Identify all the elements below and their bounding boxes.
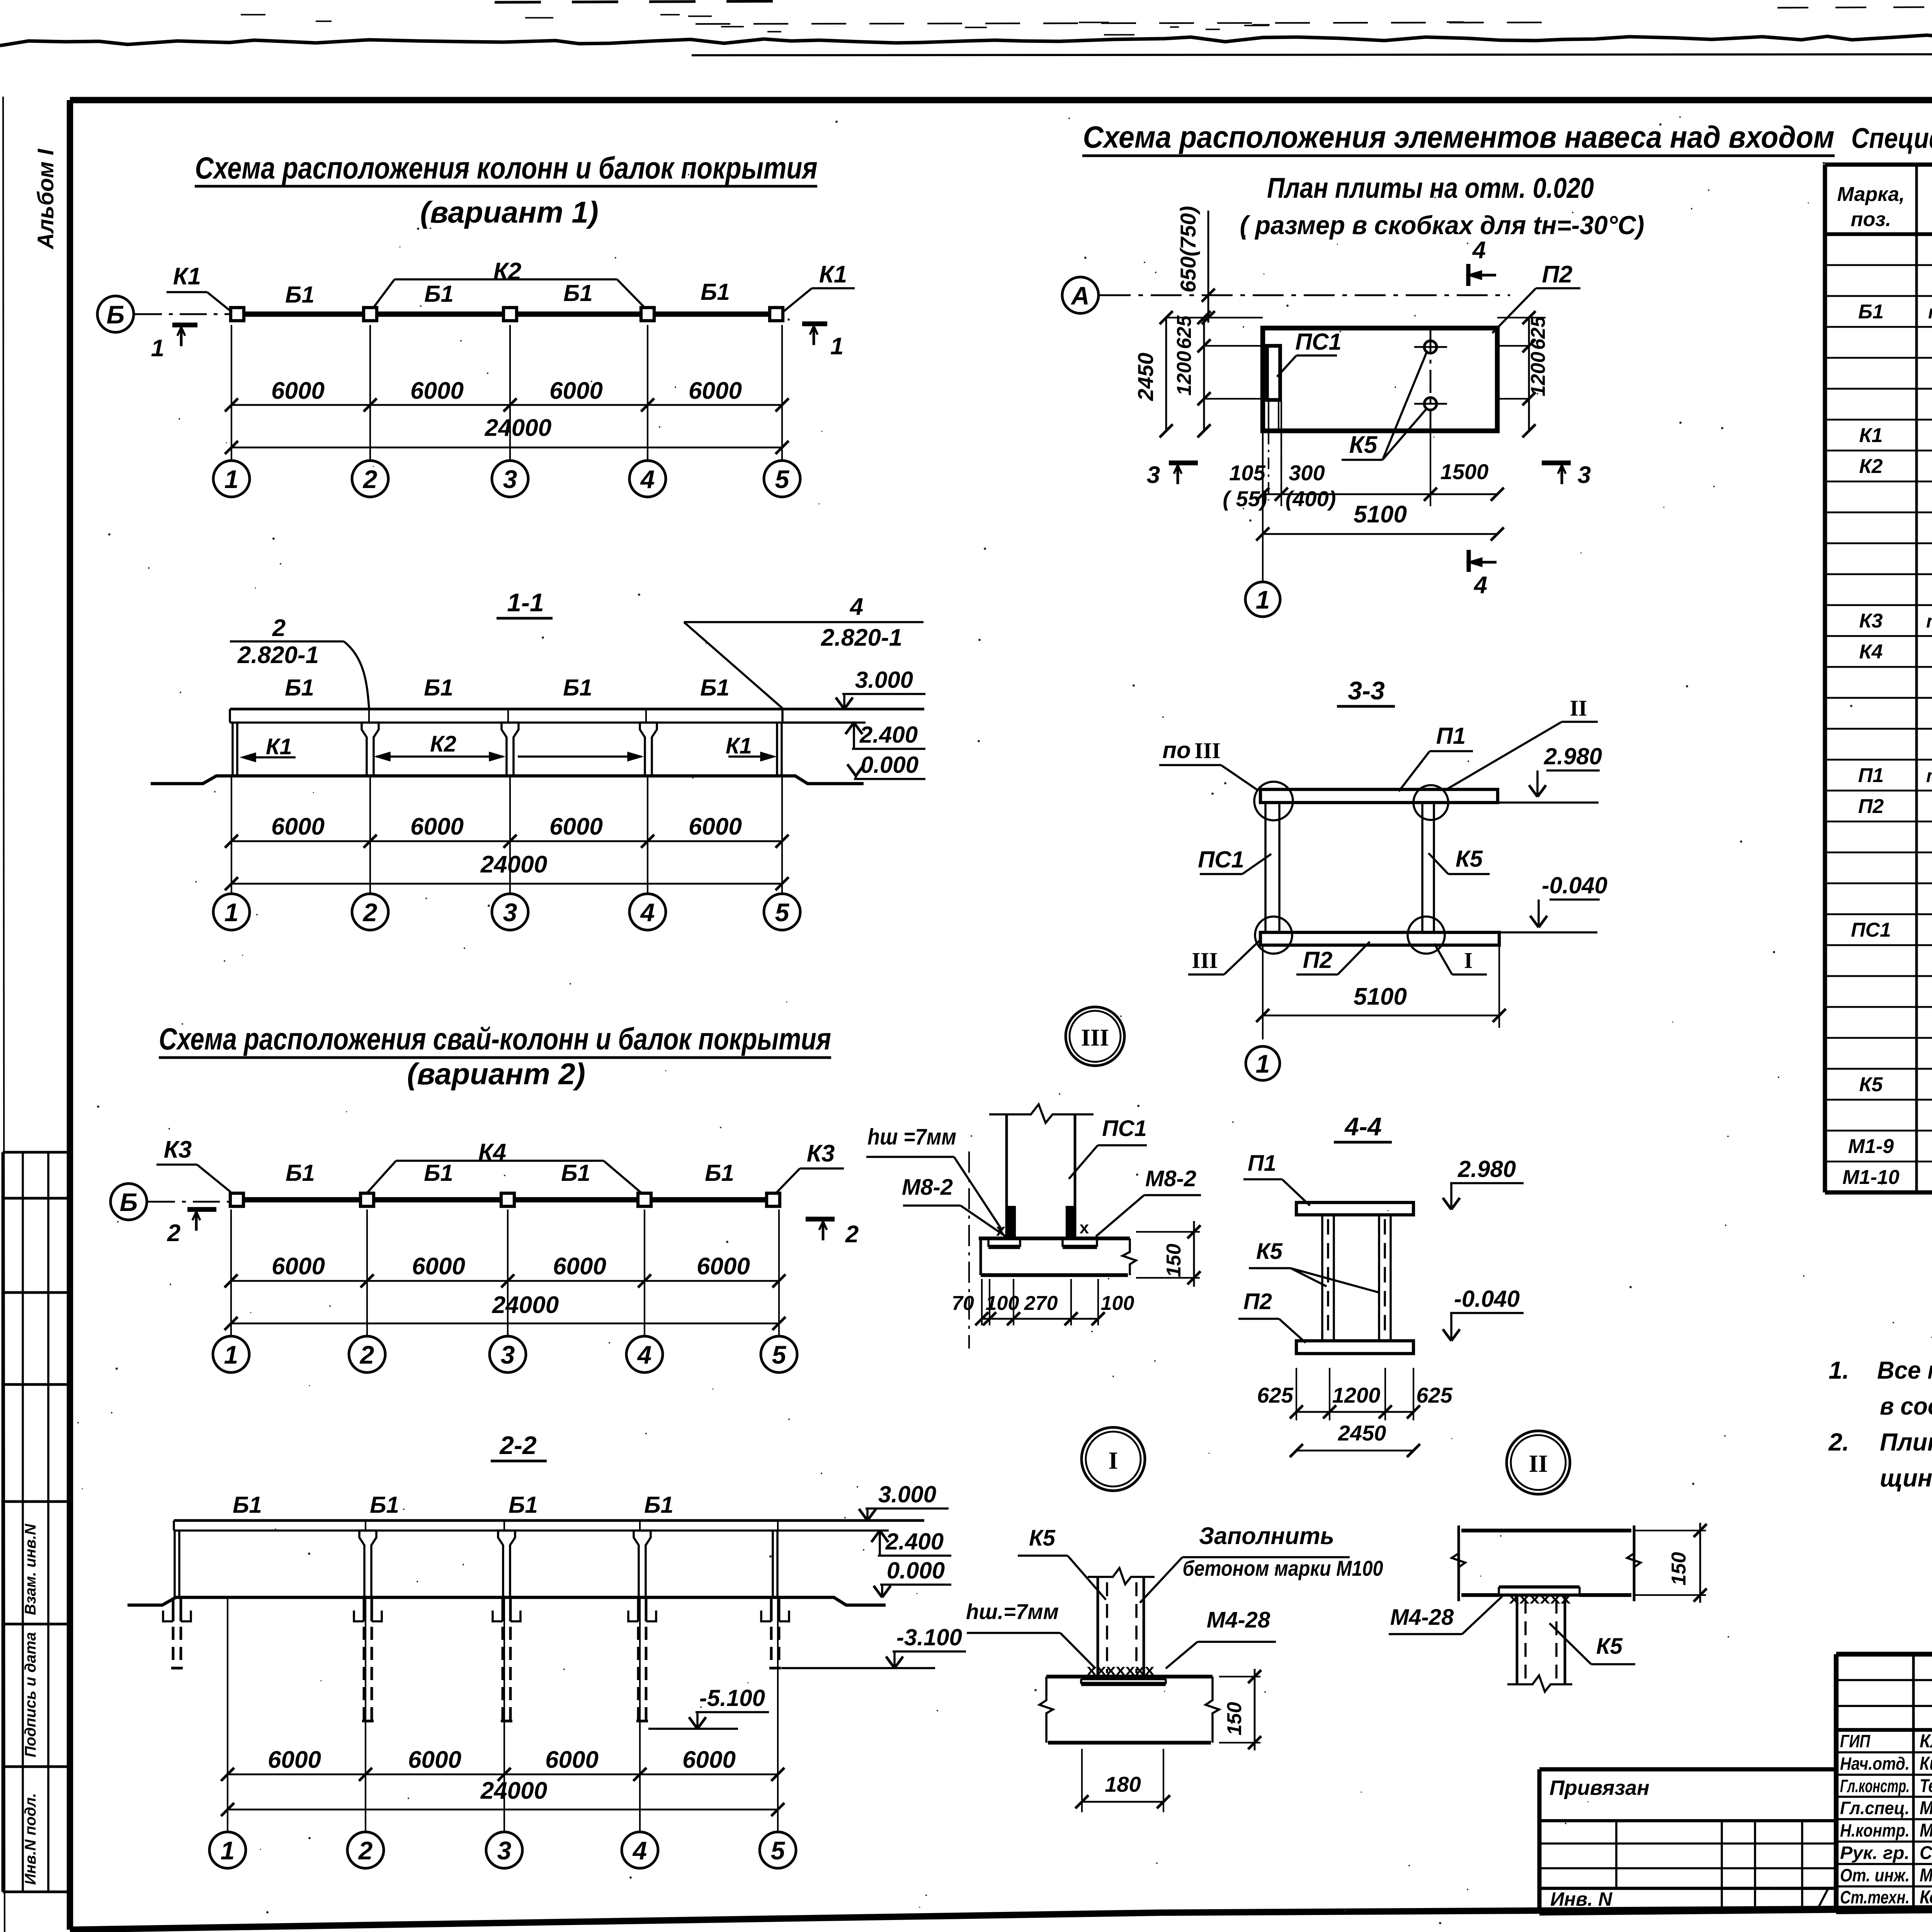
svg-text:5: 5 bbox=[775, 898, 790, 927]
svg-text:Марков: Марков bbox=[1920, 1820, 1932, 1841]
svg-text:К2: К2 bbox=[430, 731, 456, 757]
svg-text:6000: 6000 bbox=[549, 813, 603, 840]
svg-text:2450: 2450 bbox=[1133, 353, 1158, 401]
svg-text:Клейн: Клейн bbox=[1920, 1731, 1932, 1752]
svg-text:1: 1 bbox=[830, 333, 844, 360]
svg-text:Б1: Б1 bbox=[563, 675, 592, 701]
svg-text:Б1: Б1 bbox=[424, 281, 454, 307]
svg-text:поз.: поз. bbox=[1851, 208, 1891, 231]
svg-text:6000: 6000 bbox=[697, 1253, 750, 1280]
svg-text:К1: К1 bbox=[726, 733, 752, 759]
svg-text:в соответствии с указаниями: в соответствии с указаниями на листе АС-… bbox=[1880, 1392, 1932, 1420]
svg-text:Схема расположения колонн и ба: Схема расположения колонн и балок покрыт… bbox=[195, 151, 818, 185]
svg-text:6000: 6000 bbox=[410, 378, 464, 404]
svg-text:2: 2 bbox=[362, 898, 378, 927]
svg-text:6000: 6000 bbox=[272, 1253, 325, 1280]
svg-text:625: 625 bbox=[1416, 1383, 1452, 1407]
svg-text:1: 1 bbox=[1256, 1049, 1270, 1078]
svg-text:II: II bbox=[1570, 696, 1587, 721]
svg-text:П2: П2 bbox=[1303, 947, 1333, 973]
svg-text:6000: 6000 bbox=[271, 378, 325, 404]
svg-text:270: 270 bbox=[1024, 1292, 1058, 1315]
svg-text:Б1: Б1 bbox=[424, 675, 453, 701]
svg-text:4: 4 bbox=[637, 1340, 652, 1369]
svg-text:Рук. гр.: Рук. гр. bbox=[1840, 1843, 1910, 1863]
svg-text:3.000: 3.000 bbox=[855, 667, 913, 693]
svg-text:Подпись и дата: Подпись и дата bbox=[22, 1632, 39, 1757]
svg-text:План плиты на отм. 0.020: План плиты на отм. 0.020 bbox=[1267, 172, 1594, 204]
svg-text:т.п.: т.п. bbox=[1926, 611, 1932, 632]
svg-text:1: 1 bbox=[224, 465, 239, 493]
svg-text:4: 4 bbox=[640, 465, 655, 493]
svg-text:4: 4 bbox=[1473, 572, 1487, 599]
svg-text:I: I bbox=[1109, 1447, 1118, 1474]
svg-text:1: 1 bbox=[1256, 585, 1270, 614]
svg-text:2.400: 2.400 bbox=[885, 1529, 944, 1554]
svg-text:6000: 6000 bbox=[412, 1253, 465, 1280]
svg-text:1-1: 1-1 bbox=[507, 588, 544, 617]
svg-text:П2: П2 bbox=[1243, 1289, 1272, 1314]
svg-text:Ким: Ким bbox=[1920, 1753, 1932, 1774]
svg-text:Марков: Марков bbox=[1920, 1798, 1932, 1818]
svg-text:2-2: 2-2 bbox=[499, 1431, 537, 1459]
svg-text:3: 3 bbox=[503, 465, 517, 493]
svg-text:3-3: 3-3 bbox=[1348, 676, 1384, 705]
svg-text:300: 300 bbox=[1289, 461, 1325, 485]
svg-text:Схема расположения свай-колонн: Схема расположения свай-колонн и балок п… bbox=[159, 1022, 831, 1056]
svg-text:К5: К5 bbox=[1596, 1634, 1623, 1659]
svg-text:( размер в скобках для tн=-30°: ( размер в скобках для tн=-30°C) bbox=[1240, 211, 1645, 240]
svg-text:2.400: 2.400 bbox=[859, 722, 918, 748]
svg-text:Б1: Б1 bbox=[561, 1160, 590, 1186]
svg-text:x: x bbox=[1080, 1218, 1089, 1237]
svg-text:625: 625 bbox=[1257, 1383, 1293, 1407]
svg-text:Б1: Б1 bbox=[286, 1160, 315, 1186]
svg-text:Б: Б bbox=[107, 300, 125, 329]
svg-text:2.: 2. bbox=[1828, 1428, 1849, 1456]
svg-text:24000: 24000 bbox=[485, 415, 551, 441]
svg-text:по: по bbox=[1162, 737, 1190, 763]
svg-text:625: 625 bbox=[1173, 315, 1196, 349]
svg-text:Привязан: Привязан bbox=[1549, 1776, 1650, 1799]
svg-text:Взам. инв.N: Взам. инв.N bbox=[22, 1524, 39, 1615]
svg-text:2.820-1: 2.820-1 bbox=[821, 624, 902, 651]
svg-text:3: 3 bbox=[503, 898, 517, 927]
svg-text:2: 2 bbox=[845, 1221, 859, 1248]
svg-text:3: 3 bbox=[501, 1340, 515, 1369]
svg-text:А: А bbox=[1070, 281, 1090, 310]
svg-text:100: 100 bbox=[986, 1292, 1019, 1315]
svg-text:105: 105 bbox=[1229, 461, 1265, 485]
svg-text:Б1: Б1 bbox=[563, 280, 593, 306]
svg-text:1200: 1200 bbox=[1527, 352, 1549, 396]
svg-text:К1: К1 bbox=[819, 261, 847, 288]
svg-text:5: 5 bbox=[771, 1836, 786, 1865]
svg-text:Б1: Б1 bbox=[509, 1492, 538, 1518]
svg-text:Н.контр.: Н.контр. bbox=[1840, 1820, 1910, 1840]
svg-text:5100: 5100 bbox=[1354, 501, 1407, 528]
svg-text:Б1: Б1 bbox=[705, 1160, 734, 1186]
svg-text:1500: 1500 bbox=[1440, 459, 1489, 484]
svg-text:2: 2 bbox=[359, 1340, 374, 1369]
svg-text:70: 70 bbox=[952, 1292, 974, 1315]
svg-text:III: III bbox=[1194, 738, 1221, 763]
svg-text:Нач.отд.: Нач.отд. bbox=[1840, 1753, 1910, 1774]
svg-text:1200: 1200 bbox=[1332, 1383, 1381, 1407]
svg-text:М1-10: М1-10 bbox=[1842, 1166, 1899, 1189]
svg-text:5: 5 bbox=[775, 465, 790, 493]
svg-text:Б1: Б1 bbox=[285, 675, 314, 701]
svg-text:К1: К1 bbox=[173, 263, 201, 290]
svg-text:-5.100: -5.100 bbox=[699, 1685, 765, 1711]
svg-text:К3: К3 bbox=[164, 1136, 192, 1163]
svg-text:П2: П2 bbox=[1542, 261, 1572, 288]
svg-text:( 55): ( 55) bbox=[1223, 486, 1267, 511]
svg-text:К5: К5 bbox=[1859, 1073, 1883, 1096]
svg-text:М4-28: М4-28 bbox=[1207, 1607, 1270, 1633]
svg-text:ПС1: ПС1 bbox=[1851, 919, 1891, 941]
svg-text:6000: 6000 bbox=[268, 1747, 321, 1773]
svg-text:1200: 1200 bbox=[1173, 351, 1196, 396]
svg-text:Спецификация элементов к схема: Спецификация элементов к схемам располож… bbox=[1851, 122, 1932, 154]
svg-text:т.п.: т.п. bbox=[1928, 302, 1932, 323]
svg-text:II: II bbox=[1529, 1450, 1548, 1477]
svg-text:III: III bbox=[1192, 948, 1218, 973]
svg-text:3: 3 bbox=[497, 1836, 512, 1865]
svg-text:2450: 2450 bbox=[1338, 1421, 1386, 1445]
svg-text:6000: 6000 bbox=[682, 1747, 736, 1773]
svg-text:1: 1 bbox=[151, 335, 164, 362]
svg-text:150: 150 bbox=[1668, 1552, 1690, 1586]
svg-text:4: 4 bbox=[640, 898, 655, 927]
svg-text:Ст.техн.: Ст.техн. bbox=[1840, 1887, 1910, 1907]
svg-text:6000: 6000 bbox=[689, 378, 742, 404]
svg-text:hш =7мм: hш =7мм bbox=[867, 1124, 956, 1150]
svg-text:М1-9: М1-9 bbox=[1848, 1135, 1894, 1158]
svg-text:1: 1 bbox=[221, 1836, 235, 1865]
svg-text:Схема расположения элементов н: Схема расположения элементов навеса над … bbox=[1083, 120, 1835, 154]
svg-text:(400): (400) bbox=[1286, 486, 1336, 511]
svg-text:(вариант 1): (вариант 1) bbox=[420, 195, 599, 229]
svg-text:2: 2 bbox=[358, 1836, 373, 1865]
svg-text:Инв.N подл.: Инв.N подл. bbox=[22, 1793, 39, 1885]
svg-text:ПС1: ПС1 bbox=[1198, 847, 1244, 872]
svg-text:(вариант 2): (вариант 2) bbox=[407, 1057, 585, 1091]
svg-text:24000: 24000 bbox=[492, 1292, 559, 1318]
svg-text:Коптева: Коптева bbox=[1920, 1887, 1932, 1908]
svg-text:Б: Б bbox=[120, 1188, 138, 1216]
svg-text:К5: К5 bbox=[1456, 846, 1483, 872]
svg-text:М4-28: М4-28 bbox=[1390, 1605, 1454, 1630]
svg-text:1: 1 bbox=[224, 898, 239, 927]
svg-text:5: 5 bbox=[772, 1340, 787, 1369]
svg-text:0.000: 0.000 bbox=[861, 752, 918, 778]
svg-text:24000: 24000 bbox=[480, 1777, 547, 1804]
svg-text:1.: 1. bbox=[1828, 1356, 1849, 1384]
svg-text:0.000: 0.000 bbox=[887, 1558, 945, 1583]
svg-text:Инв. N: Инв. N bbox=[1550, 1888, 1612, 1910]
svg-text:К2: К2 bbox=[493, 258, 522, 285]
svg-text:150: 150 bbox=[1223, 1702, 1246, 1736]
svg-text:4: 4 bbox=[1472, 237, 1486, 264]
svg-text:-0.040: -0.040 bbox=[1542, 872, 1607, 898]
svg-text:4: 4 bbox=[849, 594, 863, 620]
svg-text:ПС1: ПС1 bbox=[1295, 329, 1342, 355]
svg-text:ГИП: ГИП bbox=[1840, 1731, 1871, 1751]
svg-text:Марка,: Марка, bbox=[1837, 183, 1905, 206]
svg-text:-3.100: -3.100 bbox=[896, 1624, 962, 1650]
svg-text:Б1: Б1 bbox=[285, 282, 315, 308]
svg-text:Скобликов: Скобликов bbox=[1920, 1843, 1932, 1863]
svg-text:III: III bbox=[1081, 1025, 1109, 1051]
svg-text:3: 3 bbox=[1578, 462, 1591, 488]
svg-text:К1: К1 bbox=[1859, 424, 1883, 447]
svg-text:М8-2: М8-2 bbox=[1145, 1166, 1196, 1191]
svg-text:От. инж.: От. инж. bbox=[1840, 1865, 1910, 1885]
svg-text:2: 2 bbox=[272, 615, 286, 641]
svg-text:650(750): 650(750) bbox=[1176, 206, 1200, 293]
svg-text:24000: 24000 bbox=[480, 851, 547, 878]
svg-text:4: 4 bbox=[632, 1836, 647, 1865]
svg-text:Малашина: Малашина bbox=[1920, 1865, 1932, 1886]
svg-text:Б1: Б1 bbox=[424, 1160, 453, 1186]
svg-text:Теляковский: Теляковский bbox=[1920, 1776, 1932, 1796]
svg-text:Заполнить: Заполнить bbox=[1199, 1523, 1334, 1549]
svg-text:щиной 200 мм.: щиной 200 мм. bbox=[1880, 1464, 1932, 1492]
svg-text:Гл.констр.: Гл.констр. bbox=[1840, 1776, 1910, 1796]
svg-text:3: 3 bbox=[1147, 462, 1160, 488]
svg-text:6000: 6000 bbox=[689, 813, 742, 840]
svg-text:Альбом I: Альбом I bbox=[33, 148, 58, 250]
svg-text:Гл.спец.: Гл.спец. bbox=[1840, 1798, 1910, 1818]
svg-text:П2: П2 bbox=[1858, 795, 1884, 818]
svg-text:Б1: Б1 bbox=[700, 675, 730, 701]
svg-text:2.980: 2.980 bbox=[1544, 743, 1602, 769]
svg-text:ПС1: ПС1 bbox=[1102, 1116, 1147, 1141]
svg-text:К5: К5 bbox=[1029, 1526, 1056, 1551]
svg-text:6000: 6000 bbox=[549, 378, 603, 404]
svg-text:М8-2: М8-2 bbox=[902, 1175, 953, 1200]
svg-text:Все металлические соединения: Все металлические соединения защищить от… bbox=[1877, 1356, 1932, 1384]
svg-text:625: 625 bbox=[1527, 316, 1549, 350]
svg-text:К3: К3 bbox=[1859, 610, 1883, 632]
svg-text:2: 2 bbox=[362, 465, 378, 493]
svg-text:6000: 6000 bbox=[553, 1253, 606, 1280]
svg-text:Б1: Б1 bbox=[233, 1492, 262, 1518]
svg-text:180: 180 bbox=[1105, 1772, 1141, 1796]
svg-text:150: 150 bbox=[1163, 1244, 1185, 1277]
svg-text:5100: 5100 bbox=[1354, 983, 1407, 1010]
svg-text:2: 2 bbox=[167, 1220, 180, 1247]
svg-text:100: 100 bbox=[1101, 1292, 1134, 1315]
svg-text:-0.040: -0.040 bbox=[1454, 1286, 1520, 1312]
svg-text:Плиту П2 установить на пес: Плиту П2 установить на песчаную подготов… bbox=[1880, 1428, 1932, 1456]
svg-text:К2: К2 bbox=[1859, 455, 1883, 478]
svg-text:2.820-1: 2.820-1 bbox=[237, 642, 319, 668]
svg-text:Б1: Б1 bbox=[370, 1492, 399, 1518]
svg-text:3.000: 3.000 bbox=[878, 1481, 936, 1507]
svg-text:Б1: Б1 bbox=[644, 1492, 673, 1518]
svg-text:К3: К3 bbox=[807, 1140, 835, 1167]
svg-text:Б1: Б1 bbox=[1858, 301, 1884, 323]
svg-text:бетоном марки М100: бетоном марки М100 bbox=[1183, 1556, 1383, 1580]
svg-text:hш.=7мм: hш.=7мм bbox=[966, 1599, 1059, 1624]
svg-text:4-4: 4-4 bbox=[1344, 1112, 1381, 1141]
svg-text:2.980: 2.980 bbox=[1458, 1156, 1516, 1182]
svg-text:т.п.: т.п. bbox=[1926, 766, 1932, 786]
svg-text:К1: К1 bbox=[266, 734, 292, 759]
svg-text:6000: 6000 bbox=[408, 1747, 461, 1773]
svg-text:6000: 6000 bbox=[410, 813, 464, 840]
svg-text:К5: К5 bbox=[1349, 432, 1378, 458]
svg-text:6000: 6000 bbox=[271, 813, 325, 840]
svg-text:I: I bbox=[1464, 948, 1473, 973]
svg-text:1: 1 bbox=[224, 1340, 238, 1369]
svg-text:П1: П1 bbox=[1248, 1151, 1276, 1176]
svg-text:К5: К5 bbox=[1256, 1239, 1283, 1264]
svg-text:Б1: Б1 bbox=[701, 279, 730, 305]
svg-text:К4: К4 bbox=[1859, 641, 1883, 663]
svg-text:П1: П1 bbox=[1858, 764, 1884, 787]
svg-text:П1: П1 bbox=[1436, 723, 1466, 749]
svg-text:6000: 6000 bbox=[545, 1747, 599, 1773]
